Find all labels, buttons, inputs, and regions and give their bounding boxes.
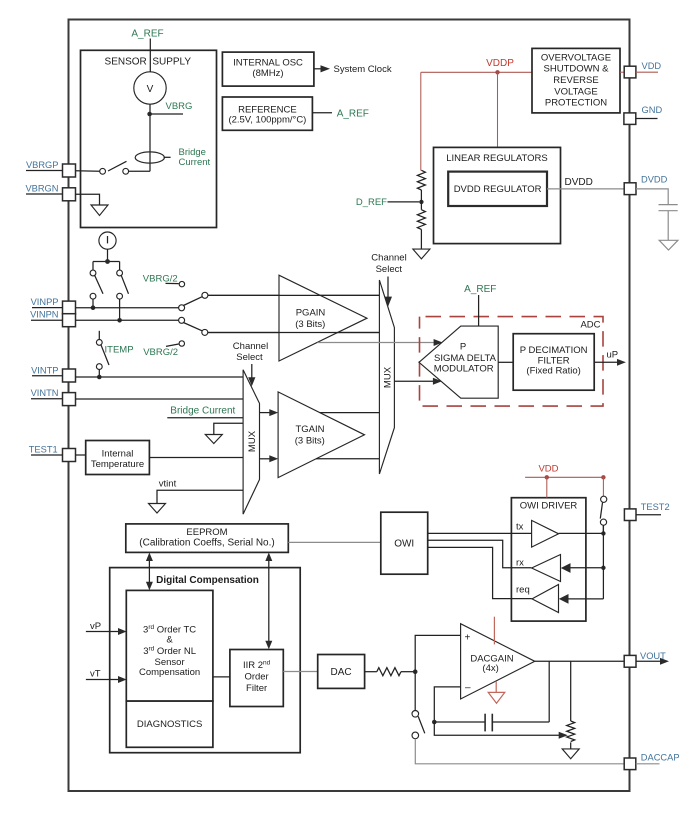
label DACCAP bbox=[641, 752, 680, 762]
wire Bridge Current to MUX1 bbox=[167, 417, 243, 419]
pin VDD bbox=[624, 66, 636, 78]
svg-text:Channel: Channel bbox=[371, 253, 406, 264]
wire pot drop bbox=[570, 661, 572, 721]
wire uP output bbox=[594, 361, 618, 363]
wire TEST2 stub bbox=[636, 514, 661, 516]
svg-text:Internal: Internal bbox=[102, 448, 134, 459]
svg-text:(3 Bits): (3 Bits) bbox=[295, 319, 325, 330]
junction dot feedback bbox=[432, 720, 437, 725]
junction dot rx bbox=[601, 566, 605, 570]
label D_REF bbox=[356, 197, 387, 208]
label Bridge Current bbox=[179, 147, 211, 168]
wire GND stub bbox=[636, 118, 658, 120]
junction dot tx bbox=[601, 531, 605, 535]
wire tee right drop bbox=[119, 262, 121, 271]
svg-text:P: P bbox=[460, 341, 466, 352]
svg-text:Bridge Current: Bridge Current bbox=[170, 406, 235, 417]
switch S5 output contact bbox=[202, 329, 208, 335]
contact VBRG/2 lower bbox=[179, 341, 184, 346]
wire compensation to IIR bbox=[213, 676, 230, 678]
svg-text:VINTN: VINTN bbox=[31, 388, 59, 398]
label VOUT bbox=[640, 651, 666, 661]
wire VINTP to MUX1 bbox=[76, 376, 244, 378]
wire pot to ground bbox=[570, 742, 572, 749]
junction dot tee bbox=[105, 259, 110, 264]
arrowhead into sigma delta upper bbox=[434, 339, 443, 346]
svg-text:EEPROM: EEPROM bbox=[186, 527, 227, 538]
wire channel select arrow left MUX bbox=[248, 364, 255, 386]
svg-text:Channel: Channel bbox=[233, 341, 268, 352]
svg-text:VINPP: VINPP bbox=[31, 297, 59, 307]
wire ITEMP to VINTP line bbox=[98, 370, 100, 378]
svg-text:MODULATOR: MODULATOR bbox=[434, 363, 494, 374]
wire vP arrow bbox=[86, 628, 127, 635]
wire VDD to test switch red bbox=[602, 477, 604, 496]
op-amp DACGAIN bbox=[461, 624, 535, 699]
label GND bbox=[642, 105, 663, 115]
svg-text:VDD: VDD bbox=[538, 464, 558, 475]
switch S1 left contact bbox=[100, 168, 106, 174]
svg-text:(2.5V, 100ppm/°C): (2.5V, 100ppm/°C) bbox=[228, 115, 306, 126]
wire resistor to node bbox=[401, 671, 415, 673]
junction dot VINPN bbox=[117, 318, 122, 323]
ground DVDD cap bbox=[659, 240, 678, 250]
junction dot VDD owi right bbox=[601, 475, 605, 479]
label Channel Select MUX2 bbox=[371, 253, 406, 275]
wire rx in bbox=[571, 567, 604, 569]
switch S2 top contact bbox=[90, 270, 96, 276]
pin VBRGN bbox=[63, 188, 76, 201]
svg-text:DVDD: DVDD bbox=[565, 177, 593, 188]
svg-text:PROTECTION: PROTECTION bbox=[545, 98, 607, 109]
ground D_REF bbox=[413, 249, 430, 259]
svg-text:ITEMP: ITEMP bbox=[105, 344, 134, 355]
wire DAC to resistor bbox=[365, 671, 377, 673]
svg-text:VOLTAGE: VOLTAGE bbox=[554, 86, 597, 97]
svg-text:req: req bbox=[516, 585, 530, 596]
svg-text:SIGMA DELTA: SIGMA DELTA bbox=[434, 353, 497, 364]
junction dot VDD owi left bbox=[545, 475, 549, 479]
svg-text:vP: vP bbox=[90, 621, 101, 632]
switch S2 lever bbox=[95, 275, 103, 294]
label VINPN bbox=[30, 309, 62, 320]
svg-text:VBRGP: VBRGP bbox=[26, 160, 59, 170]
block INTERNAL OSC bbox=[222, 52, 314, 86]
pin VINTN bbox=[63, 393, 76, 406]
svg-text:DVDD REGULATOR: DVDD REGULATOR bbox=[454, 184, 542, 195]
wire opamp minus feedback bbox=[434, 687, 460, 722]
wire vtint bbox=[157, 490, 243, 503]
pin DACCAP bbox=[624, 758, 636, 770]
label vP bbox=[90, 621, 101, 632]
svg-text:Current: Current bbox=[179, 157, 211, 168]
svg-text:TEST1: TEST1 bbox=[29, 445, 58, 455]
label ITEMP bbox=[105, 344, 134, 355]
label req bbox=[516, 585, 530, 596]
label VINPP bbox=[31, 297, 63, 307]
svg-text:Select: Select bbox=[376, 264, 403, 275]
svg-text:VBRGN: VBRGN bbox=[25, 184, 58, 194]
node VBRG label bbox=[166, 101, 193, 112]
wire DACCAP stub bbox=[636, 763, 660, 765]
block SIGMA DELTA MODULATOR bbox=[419, 326, 498, 398]
wire MUX1 to TGAIN lower arrow bbox=[260, 455, 279, 462]
buffer req bbox=[532, 585, 559, 613]
voltage source V bbox=[134, 72, 166, 104]
label vtint bbox=[159, 479, 177, 490]
svg-text:OWI DRIVER: OWI DRIVER bbox=[520, 501, 578, 512]
junction dot VDDP bbox=[495, 70, 499, 74]
block IIR filter bbox=[230, 650, 283, 707]
svg-text:V: V bbox=[147, 84, 154, 95]
wire A_REF internal bbox=[149, 50, 151, 72]
label Bridge Current wire bbox=[170, 406, 235, 417]
wire resistor to ground bbox=[420, 229, 422, 249]
wire tee left drop bbox=[92, 262, 94, 271]
switch ITEMP stub bbox=[98, 331, 100, 340]
svg-text:SHUTDOWN &: SHUTDOWN & bbox=[544, 64, 610, 75]
wire sigma delta to decimation filter bbox=[498, 361, 513, 363]
capacitor DVDD bbox=[659, 205, 678, 211]
pin DVDD bbox=[624, 183, 636, 195]
capacitor feedback bbox=[485, 714, 492, 732]
svg-text:TGAIN: TGAIN bbox=[295, 424, 324, 435]
svg-text:VBRG/2: VBRG/2 bbox=[143, 273, 178, 284]
wire VBRG bbox=[150, 113, 183, 115]
ground MUX1 input bbox=[205, 435, 222, 444]
node A_REF reference label bbox=[337, 108, 369, 119]
resistor DAC output bbox=[377, 668, 401, 676]
svg-text:OWI: OWI bbox=[394, 539, 414, 550]
svg-text:tx: tx bbox=[516, 522, 524, 533]
wire ellipse bottom to switch bbox=[129, 170, 150, 172]
svg-text:A_REF: A_REF bbox=[131, 29, 163, 40]
label Channel Select left MUX bbox=[233, 341, 268, 363]
block Digital Compensation bbox=[110, 568, 301, 753]
wire VBRGP pin to switch bbox=[76, 170, 100, 172]
svg-text:VBRG/2: VBRG/2 bbox=[143, 347, 178, 358]
wire overvoltage to VDD pin red bbox=[620, 71, 624, 73]
wire DVDD regulator to pin bbox=[547, 188, 624, 190]
label TEST2 bbox=[641, 502, 670, 512]
wire VINPN bbox=[76, 319, 179, 321]
wire req in bbox=[569, 598, 604, 600]
wire MUX2 output to sigma delta bbox=[394, 380, 435, 382]
label VBRGN bbox=[25, 184, 62, 194]
junction dot D_REF bbox=[419, 200, 423, 204]
current source I bbox=[99, 232, 116, 249]
label vT bbox=[90, 669, 101, 680]
buffer tx bbox=[532, 520, 559, 547]
svg-text:DAC: DAC bbox=[331, 667, 352, 678]
switch TEST bottom contact bbox=[600, 519, 606, 525]
svg-text:MUX: MUX bbox=[382, 366, 393, 388]
label TEST1 bbox=[29, 445, 63, 456]
wire VDD owi red bbox=[525, 476, 603, 478]
wire VDDP horizontal red bbox=[421, 71, 532, 73]
wire system clock bbox=[314, 68, 325, 70]
wire VOUT arrow bbox=[636, 658, 669, 665]
svg-text:System Clock: System Clock bbox=[334, 64, 392, 75]
wire EEPROM to compensation double arrow bbox=[146, 553, 153, 591]
svg-text:Order: Order bbox=[244, 672, 268, 683]
arrowhead system clock bbox=[321, 65, 331, 72]
resistor D_REF lower bbox=[417, 210, 425, 230]
dashed box ADC bbox=[420, 317, 604, 407]
svg-text:(Fixed Ratio): (Fixed Ratio) bbox=[526, 366, 580, 377]
block SENSOR SUPPLY bbox=[81, 50, 217, 227]
junction dot VINPP bbox=[91, 305, 96, 310]
wire to capacitor left bbox=[434, 721, 485, 723]
switch ITEMP top contact bbox=[96, 340, 102, 346]
wire TEST1 to internal temperature bbox=[76, 454, 86, 456]
wire ellipse right stub bbox=[164, 156, 171, 158]
block EEPROM bbox=[126, 524, 288, 553]
wire V to ellipse bbox=[149, 104, 151, 171]
svg-text:Select: Select bbox=[236, 352, 263, 363]
block OWI DRIVER bbox=[511, 498, 586, 621]
svg-text:(8MHz): (8MHz) bbox=[252, 68, 283, 79]
svg-text:TEST2: TEST2 bbox=[641, 502, 670, 512]
svg-text:VINPN: VINPN bbox=[30, 309, 58, 319]
svg-text:(Calibration Coeffs, Serial No: (Calibration Coeffs, Serial No.) bbox=[139, 538, 274, 549]
svg-text:VDDP: VDDP bbox=[486, 58, 514, 69]
switch S4 lever bbox=[183, 296, 203, 305]
switch DACCAP top contact bbox=[412, 711, 419, 718]
wire VDD into owi driver red bbox=[546, 477, 548, 497]
wire PGAIN gray output through MUX2 bbox=[317, 342, 436, 344]
switch S4 output contact bbox=[202, 292, 208, 298]
multiplexer MUX1 bbox=[243, 370, 259, 514]
pin VINPN bbox=[63, 314, 76, 327]
svg-text:rx: rx bbox=[516, 558, 524, 569]
node A_REF sigma delta label bbox=[464, 284, 496, 295]
resistor pot bbox=[567, 721, 575, 742]
block REFERENCE bbox=[222, 97, 312, 130]
wire capacitor right bbox=[492, 721, 549, 723]
wire feedback cap drop bbox=[548, 661, 550, 722]
wire opamp output to VOUT bbox=[535, 660, 624, 662]
label DVDD net bbox=[565, 177, 593, 188]
label uP bbox=[607, 350, 619, 361]
wire I to tee bbox=[107, 249, 109, 261]
pin VOUT bbox=[624, 655, 636, 667]
block P DECIMATION FILTER bbox=[513, 334, 594, 391]
wire A_REF to sensor supply bbox=[149, 39, 151, 51]
wire VINPP bbox=[76, 307, 179, 309]
node VDDP label bbox=[486, 58, 514, 69]
wire PGAIN bottom input over bbox=[208, 332, 380, 334]
svg-text:–: – bbox=[465, 683, 471, 694]
wire VBRGN to ground bbox=[76, 194, 100, 205]
svg-text:DACCAP: DACCAP bbox=[641, 752, 680, 762]
svg-text:D_REF: D_REF bbox=[356, 197, 387, 208]
wire OWI to req bbox=[428, 547, 532, 598]
switch S2 bottom contact bbox=[90, 293, 96, 299]
svg-text:DVDD: DVDD bbox=[641, 174, 668, 184]
arrowhead rx bbox=[561, 563, 571, 573]
wire OWI to rx bbox=[428, 540, 532, 568]
pin VINPP bbox=[63, 301, 76, 314]
label VDD bbox=[642, 61, 662, 71]
svg-text:LINEAR REGULATORS: LINEAR REGULATORS bbox=[446, 153, 548, 164]
node A_REF top label bbox=[131, 29, 163, 40]
wire MUX1 ground hook bbox=[214, 423, 243, 434]
junction dot DAC node bbox=[413, 669, 418, 674]
switch TEST top contact bbox=[601, 496, 607, 502]
block DVDD REGULATOR bbox=[448, 172, 547, 206]
svg-text:Digital Compensation: Digital Compensation bbox=[156, 575, 259, 586]
svg-text:(4x): (4x) bbox=[482, 663, 498, 674]
wire capacitor to ground bbox=[667, 211, 669, 241]
svg-text:VDD: VDD bbox=[642, 61, 662, 71]
block DAC bbox=[318, 655, 365, 689]
label DVDD pin bbox=[641, 174, 668, 184]
buffer rx bbox=[532, 555, 561, 582]
wire S5 to MUX2 bbox=[208, 332, 380, 334]
block DIAGNOSTICS bbox=[126, 701, 213, 747]
switch ITEMP lever bbox=[101, 345, 109, 365]
switch S3 lever bbox=[121, 275, 128, 294]
resistor D_REF upper bbox=[417, 170, 425, 190]
svg-text:SENSOR SUPPLY: SENSOR SUPPLY bbox=[105, 57, 192, 68]
switch S1 right contact bbox=[123, 168, 129, 174]
ground sensor supply bbox=[91, 205, 108, 216]
svg-text:VBRG: VBRG bbox=[166, 101, 193, 112]
pin TEST1 bbox=[63, 449, 76, 462]
wire TGAIN upper to MUX2 bbox=[320, 412, 380, 414]
wire reference A_REF bbox=[312, 112, 332, 114]
wire internal temperature to MUX1 bbox=[149, 457, 243, 459]
label rx bbox=[516, 558, 524, 569]
label VBRG/2 lower bbox=[143, 344, 179, 358]
wire VDDP left drop red bbox=[420, 72, 422, 170]
svg-text:DIAGNOSTICS: DIAGNOSTICS bbox=[137, 719, 202, 730]
junction dot VBRG bbox=[147, 112, 152, 117]
svg-text:PGAIN: PGAIN bbox=[296, 308, 326, 319]
svg-text:OVERVOLTAGE: OVERVOLTAGE bbox=[541, 52, 611, 63]
pin TEST2 bbox=[624, 509, 636, 521]
svg-text:vT: vT bbox=[90, 669, 101, 680]
label tx bbox=[516, 522, 524, 533]
wire resistor joint bbox=[420, 190, 422, 210]
wire EEPROM to OWI bbox=[288, 541, 381, 543]
wire A_REF to sigma delta bbox=[478, 295, 480, 326]
wire D_REF bbox=[388, 201, 420, 203]
wire switch to DACCAP pin bbox=[415, 739, 624, 764]
switch S5 lever bbox=[183, 323, 203, 332]
contact VBRG/2 upper bbox=[179, 281, 184, 286]
amplifier PGAIN bbox=[279, 275, 367, 361]
wire channel select arrow MUX2 bbox=[384, 277, 392, 307]
wire tee horizontal bbox=[93, 261, 120, 263]
switch DACCAP bottom contact bbox=[412, 732, 419, 739]
label VINTP bbox=[31, 365, 62, 375]
switch TEST lever bbox=[600, 503, 602, 519]
wire tx out bbox=[559, 532, 604, 534]
wire DVDD to capacitor bbox=[636, 189, 668, 204]
wire TGAIN lower to MUX2 bbox=[316, 458, 379, 460]
svg-text:VINTP: VINTP bbox=[31, 365, 58, 375]
svg-text:GND: GND bbox=[642, 105, 663, 115]
switch S5 input contact bbox=[179, 317, 185, 323]
switch ITEMP bottom contact bbox=[96, 364, 102, 370]
amplifier TGAIN bbox=[278, 392, 364, 478]
wire S4 to MUX2 bbox=[208, 294, 380, 296]
pin VINTP bbox=[63, 369, 76, 382]
current source ellipse Bridge Current bbox=[135, 152, 164, 163]
ground opamp red bbox=[488, 681, 505, 703]
wire opamp supply red bbox=[493, 617, 495, 645]
wire S2 to VINPP line bbox=[92, 299, 94, 308]
ground vtint bbox=[149, 504, 166, 514]
block OWI bbox=[381, 512, 428, 574]
switch S3 top contact bbox=[117, 270, 123, 276]
label System Clock bbox=[334, 64, 392, 75]
wire EEPROM to IIR double arrow bbox=[265, 553, 272, 650]
svg-text:Temperature: Temperature bbox=[91, 459, 144, 470]
wire OWI to tx bbox=[428, 532, 532, 534]
svg-text:uP: uP bbox=[607, 350, 619, 361]
svg-text:MUX: MUX bbox=[247, 430, 258, 452]
ground pot bbox=[562, 749, 579, 759]
label VBRGP bbox=[26, 160, 63, 170]
arrowhead req bbox=[559, 594, 569, 604]
switch S1 lever bbox=[108, 161, 127, 171]
block OVERVOLTAGE SHUTDOWN bbox=[532, 48, 620, 113]
wire S3 to VINPN line bbox=[119, 299, 121, 320]
wire wiper arrow bbox=[434, 722, 568, 739]
arrowhead uP bbox=[617, 359, 626, 366]
multiplexer MUX2 bbox=[379, 280, 394, 474]
wire TEST switch to tx bbox=[602, 525, 604, 533]
svg-text:P DECIMATION: P DECIMATION bbox=[520, 345, 588, 356]
svg-text:+: + bbox=[465, 633, 471, 644]
svg-text:A_REF: A_REF bbox=[337, 108, 369, 119]
arrowhead into sigma delta lower bbox=[433, 378, 442, 385]
pin VBRGP bbox=[63, 164, 76, 177]
pin GND bbox=[624, 113, 636, 125]
label VBRG/2 upper bbox=[143, 273, 179, 284]
wire VDD stub red bbox=[636, 71, 658, 73]
wire node to switch bbox=[414, 672, 416, 711]
wire MUX1 to TGAIN upper arrow bbox=[260, 409, 279, 416]
junction dot VINTP bbox=[97, 375, 102, 380]
label VINTN bbox=[31, 388, 63, 399]
svg-text:A_REF: A_REF bbox=[464, 284, 496, 295]
outer IC boundary box bbox=[69, 20, 630, 792]
wire VINTN to MUX1 bbox=[76, 398, 244, 400]
label VDD owi bbox=[538, 464, 558, 475]
block LINEAR REGULATORS bbox=[434, 147, 561, 243]
wire node to opamp plus bbox=[415, 635, 460, 671]
svg-text:REVERSE: REVERSE bbox=[553, 75, 598, 86]
wire IIR to DAC bbox=[283, 671, 317, 673]
svg-text:VOUT: VOUT bbox=[640, 651, 666, 661]
switch DACCAP lever bbox=[418, 716, 425, 733]
svg-text:vtint: vtint bbox=[159, 479, 177, 490]
block 3rd order compensation bbox=[126, 590, 213, 701]
svg-text:ADC: ADC bbox=[580, 320, 600, 331]
svg-text:(3 Bits): (3 Bits) bbox=[295, 436, 325, 447]
switch S4 input contact bbox=[179, 305, 185, 311]
svg-text:Filter: Filter bbox=[246, 683, 267, 694]
wire test rail bbox=[602, 525, 604, 599]
block Internal Temperature bbox=[86, 441, 150, 475]
svg-text:&: & bbox=[166, 635, 173, 646]
switch S3 bottom contact bbox=[117, 293, 123, 299]
svg-text:Compensation: Compensation bbox=[139, 667, 200, 678]
